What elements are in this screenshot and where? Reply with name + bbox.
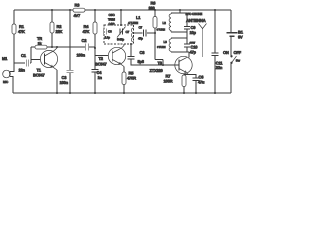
svg-text:C2: C2 — [82, 38, 88, 43]
svg-text:CAP: CAP — [109, 22, 115, 26]
svg-text:BC547: BC547 — [33, 73, 45, 78]
wire top rail — [14, 9, 231, 11]
wire node base T1 — [31, 47, 44, 63]
svg-text:22n: 22n — [19, 68, 26, 73]
label antenna — [186, 18, 206, 23]
svg-text:ANTENNA: ANTENNA — [186, 18, 206, 23]
svg-text:100n: 100n — [77, 53, 86, 58]
wire left rail — [13, 10, 15, 63]
capacitor C5 emitter — [189, 75, 206, 94]
svg-text:C7: C7 — [139, 26, 143, 30]
svg-text:47p: 47p — [190, 50, 197, 55]
transistor T1 — [33, 50, 58, 77]
antenna — [199, 24, 207, 58]
capacitor C1 — [14, 53, 31, 73]
capacitor C7 trimmer — [117, 27, 130, 42]
svg-text:22K: 22K — [56, 29, 63, 34]
microphone M1 — [2, 56, 10, 84]
wire collector node to C2 — [52, 46, 85, 48]
svg-text:L3: L3 — [164, 40, 168, 44]
svg-text:C8: C8 — [140, 50, 146, 55]
svg-text:4V7: 4V7 — [74, 13, 82, 18]
svg-text:TRIM: TRIM — [108, 18, 115, 22]
resistor R6 — [149, 1, 158, 34]
resistor R2 — [50, 10, 63, 47]
svg-text:470R: 470R — [127, 76, 136, 81]
svg-text:Sw: Sw — [236, 59, 241, 63]
wire T1 emitter — [53, 67, 58, 93]
svg-text:47u: 47u — [198, 80, 205, 85]
svg-text:OFF: OFF — [234, 50, 242, 55]
wire T2 collector — [122, 44, 124, 48]
wire R6 to base — [155, 33, 163, 65]
svg-text:10p: 10p — [190, 30, 197, 35]
svg-text:L2: L2 — [163, 21, 167, 25]
svg-text:C1: C1 — [21, 53, 27, 58]
svg-text:ON: ON — [223, 50, 229, 55]
svg-text:47K: 47K — [83, 29, 90, 34]
svg-text:RFC CHOKE: RFC CHOKE — [186, 12, 203, 16]
wire right rail — [230, 10, 232, 93]
capacitor C6 — [104, 29, 112, 40]
battery B1 — [227, 30, 244, 40]
label osc text — [108, 13, 116, 26]
resistor R1 — [12, 24, 25, 34]
svg-text:1.8p: 1.8p — [105, 36, 111, 40]
svg-text:1n: 1n — [98, 75, 103, 80]
wire bottom rail — [13, 92, 231, 94]
resistor 1k feedback — [31, 36, 52, 49]
svg-text:5-65p: 5-65p — [117, 38, 124, 42]
tank dashed box — [104, 25, 134, 44]
transistor T3 — [150, 56, 193, 73]
svg-text:22n: 22n — [216, 65, 223, 70]
resistor R7 — [164, 72, 189, 93]
capacitor C10 — [184, 44, 198, 54]
inductor L1 — [128, 15, 141, 42]
svg-text:MIC: MIC — [3, 80, 9, 84]
wire T1 collector — [54, 47, 57, 51]
svg-text:C7: C7 — [126, 30, 130, 34]
capacitor C9 — [184, 25, 197, 35]
capacitor C4 — [92, 56, 103, 94]
svg-text:BC547: BC547 — [95, 62, 107, 67]
capacitor C8 — [128, 44, 164, 65]
switch S1 — [223, 50, 242, 64]
resistor R4 — [83, 10, 113, 56]
capacitor C7b coupling — [134, 26, 156, 41]
capacitor C11 — [212, 10, 224, 93]
svg-text:OSC: OSC — [109, 13, 116, 17]
junction dots — [51, 9, 216, 94]
wire mic bottom lead — [10, 77, 13, 94]
node tank feed — [120, 10, 122, 25]
svg-text:47p: 47p — [138, 37, 143, 41]
svg-text:5p6: 5p6 — [138, 59, 145, 64]
svg-text:R3: R3 — [75, 3, 81, 8]
svg-text:ZTX320: ZTX320 — [150, 68, 164, 73]
svg-text:100n: 100n — [60, 80, 69, 85]
resistor R3 — [73, 3, 85, 19]
resistor R5 — [122, 67, 136, 94]
wire C9 to C10 — [187, 32, 196, 45]
svg-text:T2: T2 — [99, 56, 104, 61]
svg-text:M1: M1 — [2, 56, 8, 61]
inductor L3 — [157, 38, 189, 57]
svg-text:100R: 100R — [164, 79, 173, 84]
svg-text:C6: C6 — [108, 30, 112, 34]
wire mic top lead — [10, 63, 14, 72]
svg-text:47K: 47K — [18, 29, 25, 34]
svg-text:4 TURN: 4 TURN — [128, 21, 139, 25]
label RFC choke — [186, 12, 203, 16]
svg-text:6 TURN: 6 TURN — [157, 46, 166, 49]
transistor T2 — [95, 47, 126, 66]
capacitor C3 — [60, 10, 74, 93]
svg-text:6 TURN: 6 TURN — [157, 29, 166, 32]
svg-text:L1: L1 — [136, 15, 141, 20]
capacitor C2 — [77, 38, 96, 58]
svg-text:9V: 9V — [238, 35, 243, 40]
inductor L2 RFC — [157, 10, 188, 32]
wire T2 emitter — [121, 64, 125, 67]
